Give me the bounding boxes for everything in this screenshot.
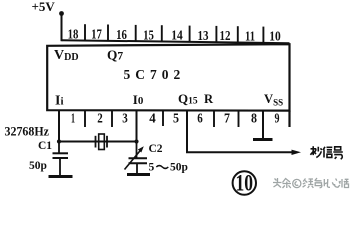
svg-text:18: 18: [68, 28, 79, 43]
svg-text:50p: 50p: [29, 160, 47, 172]
svg-text:4: 4: [149, 111, 156, 126]
svg-text:R: R: [204, 92, 214, 106]
node junction B: [134, 139, 138, 143]
pin numbers 1..9 bottom: [71, 111, 280, 126]
node +5V terminal dot: [59, 11, 64, 16]
node junction A: [57, 139, 61, 143]
wire right edge extension pin9 strip: [288, 111, 290, 127]
label circled 10: [233, 171, 256, 194]
svg-text:17: 17: [91, 28, 102, 43]
svg-text:8: 8: [251, 111, 257, 126]
ground VSS: [253, 138, 273, 141]
ground C1: [49, 175, 73, 178]
svg-text:Ii: Ii: [55, 94, 64, 109]
svg-text:11: 11: [245, 29, 255, 44]
wire VSS pin 9 ground lead: [262, 111, 264, 140]
watermark 头条@绿色比心情: [273, 178, 349, 188]
svg-text:I0: I0: [133, 92, 144, 107]
svg-text:Q15: Q15: [178, 91, 198, 107]
ground C2: [127, 173, 150, 176]
svg-text:5: 5: [149, 162, 155, 174]
svg-text:5: 5: [173, 111, 179, 126]
svg-text:5C702: 5C702: [124, 67, 186, 82]
pin divider ticks bottom row: [85, 111, 239, 128]
svg-text:9: 9: [275, 111, 280, 126]
svg-text:10: 10: [236, 171, 254, 196]
capacitor C1: [53, 142, 69, 177]
crystal Y1 32768Hz: [96, 134, 108, 150]
svg-text:50p: 50p: [170, 162, 188, 174]
pin numbers 18..10 top: [68, 28, 281, 45]
wire crystal horizontal: [59, 141, 137, 143]
svg-text:3: 3: [122, 111, 128, 126]
svg-text:16: 16: [116, 28, 127, 43]
svg-text:14: 14: [171, 29, 183, 44]
wire pin 3 down to oscillator node: [136, 111, 138, 142]
svg-text:13: 13: [198, 29, 209, 44]
svg-text:C1: C1: [38, 140, 52, 152]
svg-text:VSS: VSS: [264, 92, 283, 107]
svg-text:7: 7: [224, 111, 230, 126]
svg-text:1: 1: [71, 111, 75, 126]
svg-text:12: 12: [220, 29, 231, 44]
pin divider ticks top row: [85, 24, 263, 43]
svg-text:VDD: VDD: [54, 48, 79, 63]
svg-text:15: 15: [143, 28, 154, 43]
arrowhead seconds output: [292, 150, 302, 155]
capacitor C2 variable: [125, 142, 148, 175]
svg-text:Q7: Q7: [107, 48, 123, 63]
svg-text:2: 2: [97, 111, 103, 126]
svg-text:C2: C2: [149, 143, 163, 155]
IC U1 body 5C702: [47, 44, 289, 110]
wire pin 5 seconds output: [187, 111, 293, 153]
+5V supply rail (top pin rail): [62, 40, 290, 43]
arrowhead C2 trimmer: [138, 146, 144, 152]
wire pin 1 down to oscillator node: [58, 111, 60, 142]
svg-text:+5V: +5V: [32, 0, 56, 14]
wire +5V lead: [61, 13, 63, 41]
svg-text:6: 6: [197, 111, 203, 126]
svg-text:10: 10: [269, 30, 281, 45]
svg-text:32768Hz: 32768Hz: [5, 123, 50, 138]
label 秒信号 seconds signal (drawn strokes): [310, 146, 342, 159]
